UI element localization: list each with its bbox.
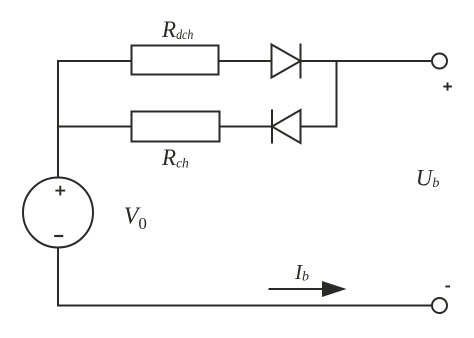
- wire bottom horizontal: [57, 305, 432, 307]
- svg-text:Ib: Ib: [294, 260, 309, 285]
- diode D2 triangle: [272, 110, 301, 143]
- source plus sign: [55, 186, 65, 196]
- wire left vertical bus: [57, 60, 59, 177]
- svg-text:Rch: Rch: [161, 145, 189, 171]
- diode D1 triangle: [272, 45, 301, 78]
- wire diode to terminal: [301, 60, 433, 62]
- wire R_ch to diode: [220, 126, 273, 128]
- wire below source: [57, 248, 59, 305]
- wire top-left horizontal: [57, 60, 132, 62]
- voltage source V0: [23, 178, 93, 248]
- terminal + circle: [432, 54, 447, 69]
- arrow Ib head: [322, 281, 347, 297]
- svg-text:Ub: Ub: [416, 165, 440, 191]
- wire junction vertical: [336, 61, 338, 128]
- diode D1 cathode bar: [300, 44, 302, 79]
- svg-text:Rdch: Rdch: [161, 17, 194, 42]
- resistor R_dch: [132, 46, 219, 75]
- label minus terminal: [445, 286, 450, 288]
- wire R_dch to diode: [219, 60, 272, 62]
- wire D2 to junction: [301, 126, 338, 128]
- arrow Ib line: [269, 288, 331, 290]
- resistor R_ch: [132, 112, 220, 142]
- wire middle-left horizontal: [58, 126, 132, 128]
- source minus sign: [54, 235, 63, 237]
- label plus terminal: [443, 82, 452, 90]
- svg-text:V0: V0: [124, 203, 147, 233]
- diode D2 cathode bar: [271, 110, 273, 144]
- terminal - circle: [432, 298, 447, 313]
